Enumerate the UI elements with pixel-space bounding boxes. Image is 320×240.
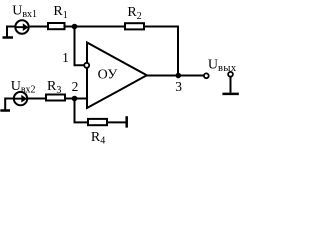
svg-text:2: 2: [72, 79, 79, 94]
svg-text:ОУ: ОУ: [98, 67, 118, 82]
svg-text:1: 1: [62, 50, 69, 65]
svg-text:3: 3: [175, 79, 182, 94]
